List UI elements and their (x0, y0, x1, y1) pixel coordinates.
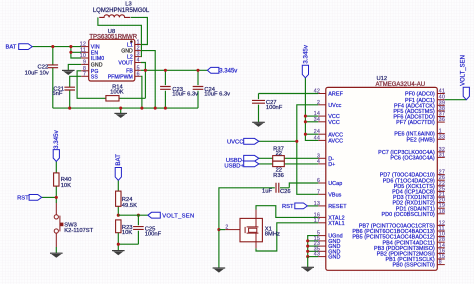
svg-text:7: 7 (317, 189, 320, 195)
svg-text:USBD+: USBD+ (224, 164, 244, 170)
svg-text:10K: 10K (61, 183, 71, 189)
svg-text:22: 22 (276, 151, 282, 157)
svg-text:RESET: RESET (328, 204, 347, 210)
svg-text:C26: C26 (280, 189, 291, 195)
svg-text:49.5K: 49.5K (122, 203, 137, 209)
svg-text:SS: SS (91, 74, 99, 80)
svg-text:ATMEGA32U4-AU: ATMEGA32U4-AU (376, 82, 426, 88)
svg-text:TPS63051RMWR: TPS63051RMWR (89, 35, 137, 41)
svg-text:ILIM0: ILIM0 (91, 56, 104, 62)
svg-text:UVCC: UVCC (227, 140, 243, 146)
svg-text:GND: GND (328, 255, 340, 261)
svg-text:10uF 6.3v: 10uF 6.3v (204, 91, 230, 97)
svg-text:PF0 (ADC0): PF0 (ADC0) (405, 92, 435, 98)
svg-text:18: 18 (439, 209, 446, 215)
svg-text:PFM/PWM: PFM/PWM (108, 74, 133, 80)
svg-text:VBus: VBus (328, 192, 341, 198)
svg-text:9: 9 (83, 60, 86, 66)
svg-text:36: 36 (439, 117, 446, 123)
svg-text:UVcc: UVcc (328, 103, 341, 109)
svg-text:K2-1107ST: K2-1107ST (64, 228, 93, 234)
svg-text:BAT: BAT (115, 154, 122, 166)
svg-text:AREF: AREF (328, 92, 343, 98)
svg-text:1uF: 1uF (262, 189, 272, 195)
svg-text:13: 13 (314, 201, 321, 207)
svg-text:8: 8 (439, 260, 442, 266)
svg-text:RST: RST (17, 196, 29, 202)
svg-text:AVCC: AVCC (328, 139, 343, 145)
svg-text:42: 42 (314, 89, 321, 95)
svg-text:100K: 100K (110, 90, 124, 96)
svg-text:VCC: VCC (328, 120, 340, 126)
svg-text:GND: GND (91, 63, 103, 69)
svg-text:1: 1 (137, 40, 140, 46)
svg-text:100nF: 100nF (145, 231, 162, 237)
svg-text:4: 4 (317, 159, 320, 165)
svg-text:BAT: BAT (5, 45, 16, 51)
svg-text:D+: D+ (328, 162, 335, 168)
svg-text:44: 44 (314, 135, 321, 141)
svg-text:17: 17 (314, 218, 321, 224)
svg-text:PB0 (SSPCINT0): PB0 (SSPCINT0) (392, 263, 434, 269)
svg-text:10K: 10K (122, 230, 132, 236)
svg-text:AVCC: AVCC (328, 132, 343, 138)
svg-text:RST: RST (282, 204, 294, 210)
svg-text:L3: L3 (125, 1, 131, 7)
svg-text:3.345v: 3.345v (302, 44, 309, 63)
svg-text:VOLT_SEN: VOLT_SEN (460, 55, 466, 86)
svg-text:PE2 (HWB): PE2 (HWB) (406, 137, 434, 143)
svg-text:XTAL1: XTAL1 (328, 221, 345, 227)
svg-text:31: 31 (439, 152, 446, 158)
svg-text:3.345v: 3.345v (53, 129, 60, 148)
svg-text:6: 6 (317, 178, 320, 184)
svg-text:VOLT_SEN: VOLT_SEN (162, 213, 194, 219)
svg-text:10: 10 (80, 53, 87, 59)
svg-text:7: 7 (83, 71, 86, 77)
svg-text:2: 2 (317, 100, 320, 106)
svg-text:PD0 (OC0BSCLINT0): PD0 (OC0BSCLINT0) (382, 212, 435, 218)
svg-text:24: 24 (314, 129, 321, 135)
svg-text:43: 43 (314, 252, 321, 258)
svg-text:5nF: 5nF (52, 91, 62, 97)
svg-text:100nF: 100nF (266, 105, 283, 111)
svg-text:UCap: UCap (328, 181, 342, 187)
svg-text:33: 33 (439, 134, 446, 140)
svg-text:L1: L1 (127, 43, 133, 49)
svg-text:8MHz: 8MHz (265, 232, 280, 238)
svg-text:PC6 (OC3A0C4A): PC6 (OC3A0C4A) (390, 156, 435, 162)
svg-text:PF7 (ADC7TDI): PF7 (ADC7TDI) (396, 120, 435, 126)
svg-text:10uF 10v: 10uF 10v (25, 70, 49, 76)
svg-text:10uF 6.3v: 10uF 6.3v (172, 91, 198, 97)
svg-text:3.345v: 3.345v (219, 68, 237, 74)
svg-text:LQM2HPN1R5MG0L: LQM2HPN1R5MG0L (93, 8, 150, 14)
svg-text:VOUT: VOUT (118, 61, 133, 67)
svg-text:6: 6 (137, 71, 140, 77)
svg-text:41: 41 (439, 89, 446, 95)
svg-text:4: 4 (137, 58, 140, 64)
svg-text:R36: R36 (273, 173, 284, 179)
svg-text:34: 34 (314, 117, 321, 123)
svg-text:2: 2 (225, 224, 228, 230)
